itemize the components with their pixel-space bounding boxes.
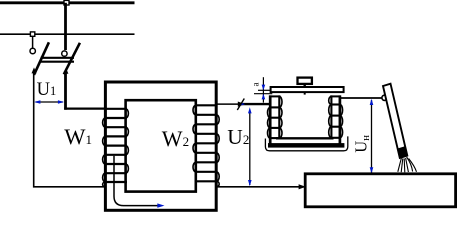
choke pot bottom slab xyxy=(268,143,344,148)
wire from right switch pole down (thick) xyxy=(64,72,67,110)
svg-text:a: a xyxy=(251,83,261,87)
wire L1 power line xyxy=(0,1,135,4)
wire L2 power line xyxy=(0,33,135,35)
choke pot right wall xyxy=(330,95,332,138)
wire right-angle to W1 top xyxy=(64,107,105,109)
winding W1 bumps outer side xyxy=(103,118,106,127)
choke movable core (lid) xyxy=(271,87,344,92)
switch S tie bar (insulating link, double line) xyxy=(41,57,75,59)
svg-text:W1: W1 xyxy=(64,124,92,149)
switch S right blade xyxy=(64,43,80,75)
winding W1 turns (rungs) xyxy=(104,108,127,110)
wire W2 bottom to workpiece xyxy=(216,186,304,188)
winding W1 bumps inner side xyxy=(126,109,129,118)
adjustable tap wire with arrow xyxy=(114,156,158,206)
node on L1 (open square terminal) xyxy=(64,0,69,5)
current direction arrow with slash on wire xyxy=(238,102,245,107)
choke right winding rungs xyxy=(330,103,341,105)
dimension line U2 (vertical double arrow) xyxy=(249,110,251,185)
winding W2 turns (rungs) xyxy=(196,104,217,106)
transformer core inner window xyxy=(126,100,196,191)
choke right winding bumps inner xyxy=(329,96,332,104)
switch S right hinge (filled arrow) xyxy=(63,68,68,74)
wire from left switch pole down and right to W1 bottom xyxy=(34,72,105,187)
wire W2 top to choke xyxy=(216,103,240,105)
choke right winding bumps outer xyxy=(340,105,343,116)
svg-text:U1: U1 xyxy=(37,80,57,100)
electrode holder pivot (open circle) xyxy=(382,95,387,100)
choke left winding bumps inner xyxy=(279,96,282,107)
choke air-gap dimension line with arrows xyxy=(262,77,264,102)
switch S right contact (open circle) xyxy=(62,51,67,56)
electrode holder bar xyxy=(383,84,407,158)
junction arrow at workpiece xyxy=(299,184,306,189)
choke pot left wall xyxy=(269,95,272,147)
choke left winding rungs xyxy=(269,106,280,108)
switch S left blade xyxy=(34,42,49,75)
electrode tip (filled) xyxy=(398,146,408,158)
choke winding wrap-around wire xyxy=(265,136,347,150)
choke core handle stem xyxy=(304,84,306,87)
switch S left contact (open circle) xyxy=(30,48,35,53)
wire choke to electrode holder xyxy=(341,97,382,99)
welding arc strokes xyxy=(398,157,417,172)
choke left winding bumps outer xyxy=(268,107,271,117)
wire from L2 down to switch left pole xyxy=(32,36,34,48)
winding W2 bumps outer side xyxy=(216,115,219,125)
switch S left hinge (filled arrow) xyxy=(32,67,37,73)
dimension line U1 (double arrow) xyxy=(36,101,63,103)
node on L2 (open square terminal) xyxy=(30,32,34,36)
wire from L1 down to switch right pole xyxy=(64,3,67,50)
svg-text:Uн: Uн xyxy=(352,135,373,153)
transformer core outer outline xyxy=(105,82,216,210)
choke air-gap extension lines xyxy=(258,89,272,91)
winding W2 bumps inner side xyxy=(193,105,196,115)
choke core handle knob xyxy=(298,78,312,84)
svg-text:U2: U2 xyxy=(227,125,249,149)
dimension line Uh (vertical double arrow) xyxy=(371,100,373,173)
workpiece (welded part) xyxy=(305,174,455,207)
choke window bottom xyxy=(276,137,334,139)
